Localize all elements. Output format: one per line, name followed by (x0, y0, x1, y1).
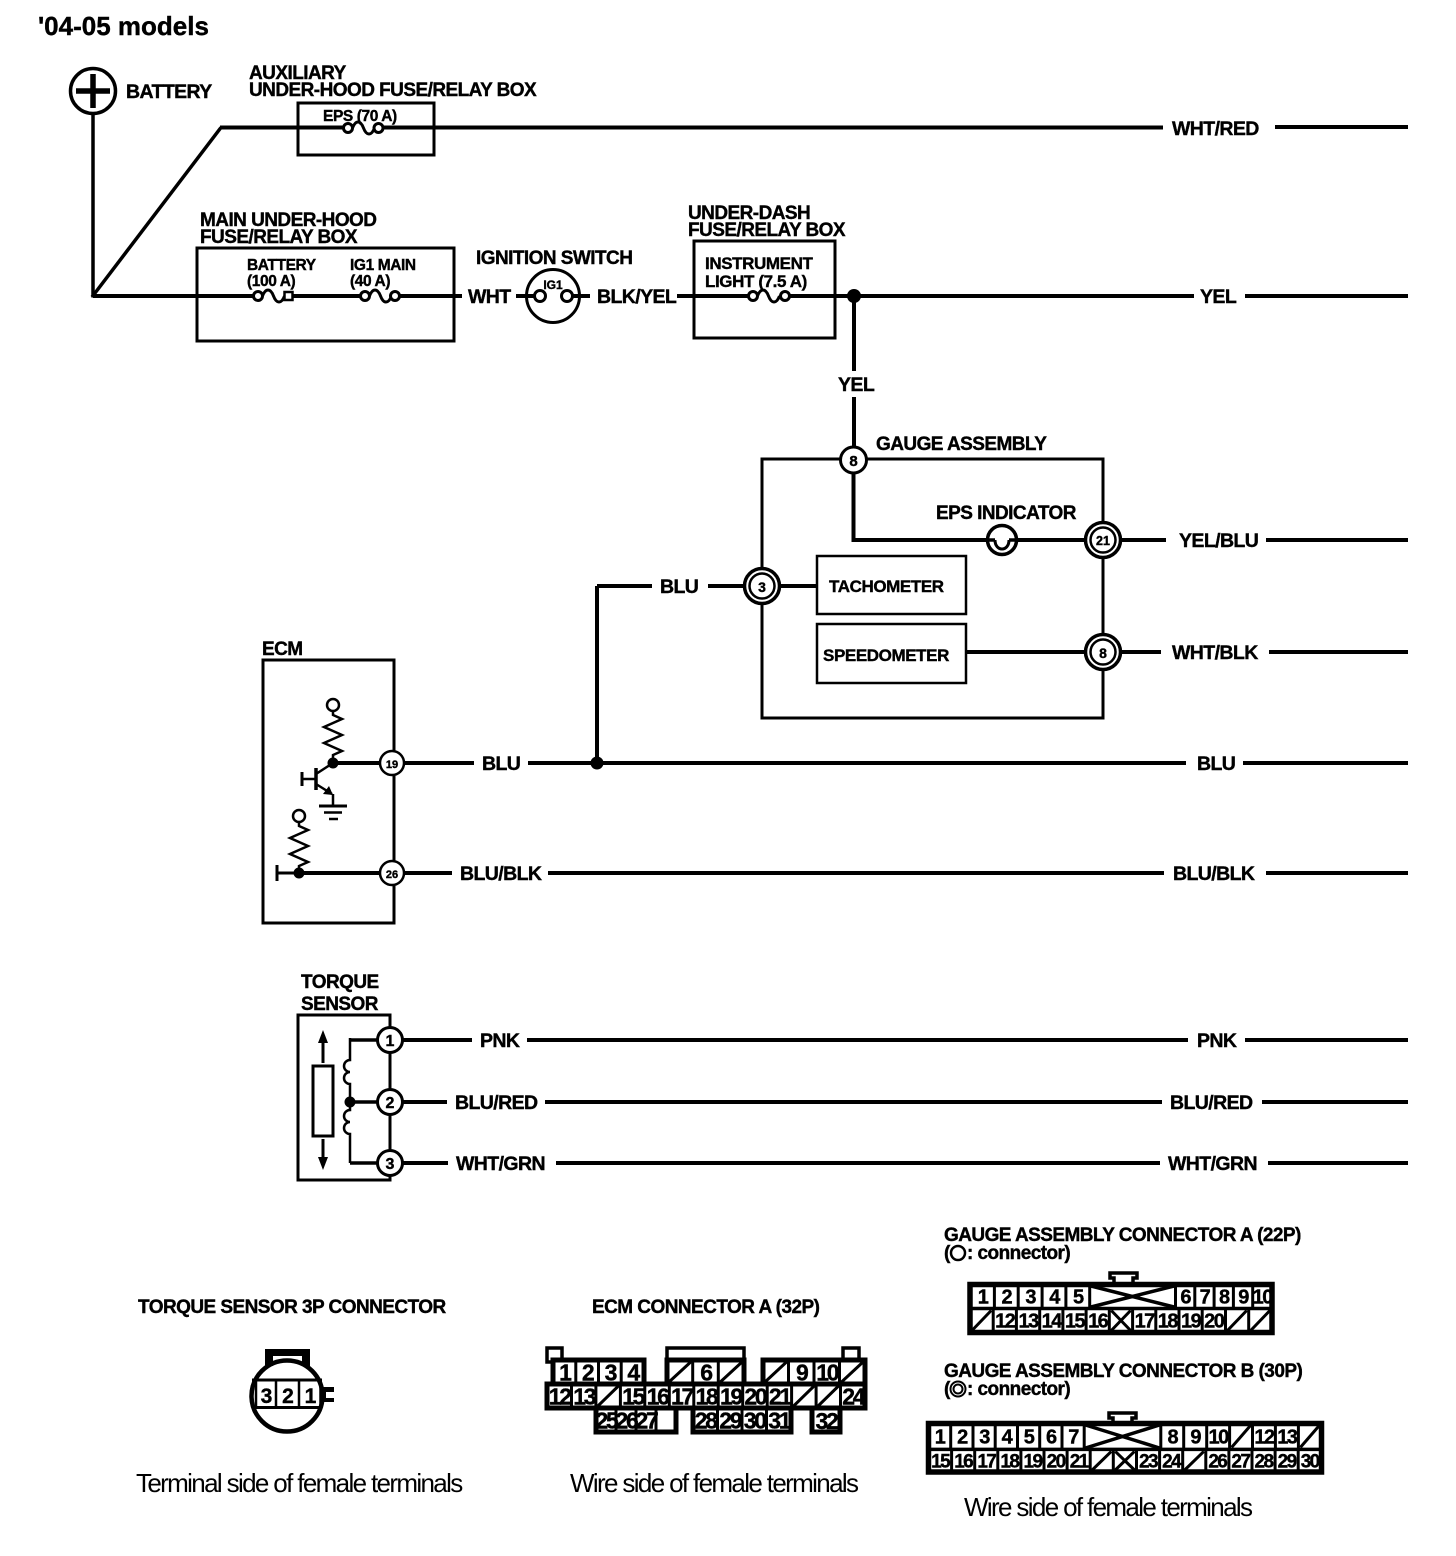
fuse INSTRUMENT LIGHT (7.5 A) (705, 254, 813, 302)
transistor Q1 (302, 763, 333, 806)
svg-text:15: 15 (622, 1383, 645, 1409)
gauge conn A crossed box (1088, 1285, 1091, 1309)
svg-text:21: 21 (769, 1383, 792, 1409)
svg-text:YEL/BLU: YEL/BLU (1179, 530, 1258, 552)
pin 1 torque (378, 1028, 403, 1053)
svg-text:Wire side of female terminals: Wire side of female terminals (570, 1468, 859, 1498)
fuse IG1 MAIN (40 A) (350, 257, 416, 302)
svg-text:Terminal side of female termin: Terminal side of female terminals (136, 1468, 463, 1498)
wire BLU/BLK right (1266, 871, 1408, 875)
legend connector A (944, 1243, 1070, 1264)
svg-text:BLU: BLU (482, 753, 520, 775)
svg-text:2: 2 (1001, 1287, 1012, 1309)
wire pin1 to PNK (403, 1038, 472, 1042)
wire PNK right (1245, 1038, 1408, 1042)
svg-text:16: 16 (1088, 1311, 1109, 1333)
svg-text:17: 17 (671, 1383, 693, 1409)
wire pin8 down to EPS indicator (854, 473, 989, 540)
main fuse box (197, 248, 454, 341)
pin 21 (1086, 523, 1121, 558)
svg-text:1: 1 (305, 1385, 317, 1408)
svg-text:YEL: YEL (1200, 286, 1237, 308)
svg-text:10: 10 (1208, 1427, 1229, 1449)
svg-text:26: 26 (386, 869, 398, 881)
wire WHT/BLK right (1269, 650, 1408, 654)
svg-text:20: 20 (744, 1383, 766, 1409)
svg-text:30: 30 (744, 1407, 766, 1433)
wire BLU right (1243, 761, 1408, 765)
wire YEL right (1245, 294, 1408, 298)
svg-text:18: 18 (1158, 1311, 1179, 1333)
gauge connector A body (970, 1285, 1272, 1333)
wire speedometer to pin 8 (966, 650, 1087, 654)
svg-text:29: 29 (1278, 1452, 1297, 1473)
svg-text:20: 20 (1047, 1452, 1066, 1473)
gauge conn B crossed box (1083, 1424, 1086, 1450)
resistor R1 pullup (324, 699, 342, 759)
svg-text:27: 27 (636, 1407, 658, 1433)
ground (319, 806, 347, 819)
svg-text:WHT/GRN: WHT/GRN (456, 1153, 545, 1175)
svg-text:26: 26 (1208, 1452, 1227, 1473)
svg-text:27: 27 (1231, 1452, 1250, 1473)
top row group 1 (553, 1360, 644, 1384)
svg-text:'04-05 models: '04-05 models (38, 11, 209, 41)
top center cap (667, 1348, 744, 1362)
svg-text:13: 13 (1018, 1311, 1039, 1333)
svg-text:17: 17 (977, 1452, 996, 1473)
wire BLU long (528, 761, 1186, 765)
svg-text:1: 1 (935, 1427, 946, 1449)
svg-text:15: 15 (1065, 1311, 1086, 1333)
svg-text:WHT: WHT (468, 286, 511, 308)
junction BLU (591, 757, 604, 770)
svg-text:9: 9 (796, 1359, 808, 1385)
svg-text:3: 3 (386, 1156, 395, 1173)
pin 3 (745, 569, 780, 604)
wire PNK long (527, 1038, 1188, 1042)
wire pin1 to coil (350, 1038, 378, 1042)
svg-text:9: 9 (1190, 1427, 1201, 1449)
ECM conn A bottom row cells 28-31 (716, 1408, 719, 1432)
svg-text:16: 16 (954, 1452, 973, 1473)
pin 3 torque (378, 1151, 403, 1176)
svg-text:FUSE/RELAY BOX: FUSE/RELAY BOX (200, 227, 358, 248)
svg-text:ECM CONNECTOR A (32P): ECM CONNECTOR A (32P) (592, 1297, 820, 1318)
ECM conn A middle row cells 12-24 (570, 1384, 573, 1408)
svg-text:8: 8 (849, 453, 857, 470)
svg-text:3: 3 (1025, 1287, 1036, 1309)
pin 19 (380, 751, 404, 775)
svg-text:BLU/RED: BLU/RED (1170, 1092, 1253, 1114)
svg-text:17: 17 (1135, 1311, 1156, 1333)
svg-text:9: 9 (1238, 1287, 1249, 1309)
node coil center (345, 1097, 356, 1108)
tachometer box (817, 556, 966, 614)
gauge conn A mid line (970, 1307, 1272, 1311)
svg-text:1: 1 (978, 1287, 989, 1309)
svg-text:(40 A): (40 A) (350, 273, 390, 290)
gauge connector B body (929, 1424, 1322, 1473)
svg-text:18: 18 (696, 1383, 719, 1409)
svg-text:16: 16 (647, 1383, 669, 1409)
wire YEL/BLU right (1266, 538, 1408, 542)
top row group 3 (763, 1360, 865, 1384)
svg-text:19: 19 (386, 759, 398, 771)
svg-text:WHT/RED: WHT/RED (1172, 118, 1259, 140)
fuse BATTERY (100 A) (247, 257, 317, 302)
wire WHT/GRN right (1268, 1161, 1408, 1165)
svg-text:BLU: BLU (1197, 753, 1235, 775)
svg-text:12: 12 (995, 1311, 1016, 1333)
svg-text:28: 28 (1255, 1452, 1274, 1473)
wire WHT to ignition switch (516, 294, 534, 298)
svg-text:32: 32 (816, 1408, 838, 1434)
top-left ear (547, 1348, 562, 1362)
svg-text:30: 30 (1301, 1452, 1320, 1473)
svg-text:19: 19 (720, 1383, 742, 1409)
speedometer box (817, 624, 966, 683)
svg-text:BATTERY: BATTERY (126, 81, 212, 103)
svg-text:INSTRUMENT: INSTRUMENT (705, 254, 813, 273)
svg-text:29: 29 (719, 1407, 741, 1433)
svg-text:BLK/YEL: BLK/YEL (597, 286, 677, 308)
svg-text:IG1: IG1 (543, 278, 563, 292)
svg-text:3: 3 (261, 1385, 272, 1408)
wire BLU/BLK long (548, 871, 1164, 875)
svg-text:12: 12 (1254, 1427, 1275, 1449)
svg-text:PNK: PNK (1197, 1030, 1237, 1052)
pin 8 speedometer (1086, 635, 1121, 670)
bottom row cell 32 (812, 1408, 840, 1432)
svg-text:ECM: ECM (262, 639, 303, 660)
node collector junction (328, 758, 339, 769)
gauge connector B latch (1109, 1413, 1136, 1423)
wire pin3 to tachometer (780, 584, 818, 588)
pin 26 (380, 861, 404, 885)
svg-text:5: 5 (1024, 1427, 1035, 1449)
svg-text:8: 8 (1099, 645, 1107, 661)
legend connector B (944, 1379, 1070, 1400)
svg-text:14: 14 (1042, 1311, 1064, 1333)
svg-text:YEL: YEL (838, 374, 875, 396)
svg-text:TACHOMETER: TACHOMETER (829, 577, 944, 596)
wire BLK/YEL to under-dash box (677, 294, 749, 298)
svg-text:19: 19 (1024, 1452, 1043, 1473)
svg-text:24: 24 (842, 1383, 865, 1409)
svg-text:3: 3 (979, 1427, 990, 1449)
svg-text:WHT/GRN: WHT/GRN (1168, 1153, 1257, 1175)
gauge conn B top cells 1-7 (949, 1424, 952, 1450)
gauge conn A top cells 1-5 (993, 1285, 996, 1309)
wire BLU feed to pin 3 (597, 584, 652, 588)
svg-text:TORQUE: TORQUE (301, 972, 379, 993)
svg-text:2: 2 (957, 1427, 968, 1449)
wire YEL vertical lower (852, 397, 856, 449)
svg-text:12: 12 (549, 1383, 571, 1409)
wire switch to BLK/YEL (573, 294, 590, 298)
wire bulb to pin 21 (1016, 538, 1087, 542)
arrow down (318, 1139, 328, 1170)
svg-text:: connector): : connector) (967, 1243, 1070, 1264)
svg-text:24: 24 (1162, 1452, 1182, 1473)
ECM connector A body (547, 1348, 865, 1432)
svg-text:19: 19 (1181, 1311, 1202, 1333)
coil upper (344, 1038, 350, 1102)
svg-text:28: 28 (695, 1407, 718, 1433)
svg-text:BATTERY: BATTERY (247, 257, 317, 274)
torque sensor 3P connector body (252, 1349, 335, 1432)
svg-text:18: 18 (1000, 1452, 1019, 1473)
svg-text:3: 3 (605, 1359, 617, 1385)
EPS indicator bulb (988, 526, 1017, 555)
ECM conn A top row cells /,6,/ (691, 1360, 694, 1384)
svg-text:GAUGE ASSEMBLY: GAUGE ASSEMBLY (876, 434, 1047, 455)
svg-text:10: 10 (816, 1359, 838, 1385)
wire BLU/RED long (545, 1100, 1162, 1104)
svg-text:2: 2 (582, 1359, 594, 1385)
gauge connector A latch (1110, 1273, 1137, 1284)
wire BLU/RED right (1262, 1100, 1408, 1104)
wire pin21 to YEL/BLU (1121, 538, 1166, 542)
svg-text:BLU/BLK: BLU/BLK (460, 863, 542, 885)
ECM conn A bottom row cells 25-27 (615, 1408, 618, 1432)
svg-text:IGNITION SWITCH: IGNITION SWITCH (476, 248, 632, 269)
svg-text:UNDER-HOOD FUSE/RELAY BOX: UNDER-HOOD FUSE/RELAY BOX (249, 80, 537, 101)
svg-text:6: 6 (1180, 1287, 1191, 1309)
svg-text:20: 20 (1204, 1311, 1225, 1333)
svg-text:BLU/BLK: BLU/BLK (1173, 863, 1255, 885)
resistor R2 pullup (290, 810, 308, 869)
svg-text:8: 8 (1167, 1427, 1178, 1449)
wire YEL vertical down (852, 296, 856, 371)
svg-text:2: 2 (386, 1095, 395, 1112)
wire pin26 to BLU/BLK (404, 871, 452, 875)
wire fuse2 to WHT (400, 294, 462, 298)
svg-text:Wire side of female terminals: Wire side of female terminals (964, 1492, 1253, 1522)
fuse EPS (70 A) (323, 108, 397, 134)
svg-text:FUSE/RELAY BOX: FUSE/RELAY BOX (688, 220, 846, 241)
gauge conn B top cells 8-13 (1182, 1424, 1185, 1450)
wire node to pin2 (350, 1100, 378, 1104)
svg-text:31: 31 (768, 1407, 791, 1433)
torque sensor box (298, 1015, 390, 1180)
wire battery to fuse (93, 294, 253, 298)
svg-text:10: 10 (1253, 1287, 1274, 1309)
wire pin2 to BLU/RED (403, 1100, 447, 1104)
wire battery diagonal to EPS fuse (92, 128, 221, 298)
gauge conn A top cells 6-10 (1193, 1285, 1196, 1309)
gauge conn B bottom cells (950, 1449, 953, 1472)
pin 2 torque (378, 1090, 403, 1115)
svg-text:2: 2 (282, 1385, 293, 1408)
svg-text:EPS INDICATOR: EPS INDICATOR (936, 503, 1077, 524)
ECM conn A top row cells 1-4 (574, 1360, 577, 1384)
node R2 junction (294, 868, 305, 879)
ignition switch (476, 248, 632, 323)
wire R2 node to pin 26 (299, 871, 381, 875)
wire battery vertical (91, 114, 95, 298)
stub left of R2 node (277, 865, 299, 881)
svg-text:LIGHT (7.5 A): LIGHT (7.5 A) (705, 272, 807, 291)
svg-text:(100 A): (100 A) (247, 273, 296, 290)
svg-text:6: 6 (1046, 1427, 1057, 1449)
ECM box (263, 660, 394, 923)
svg-text:SENSOR: SENSOR (301, 994, 379, 1015)
svg-text:WHT/BLK: WHT/BLK (1172, 642, 1258, 664)
slider rect (313, 1066, 333, 1136)
svg-text:8: 8 (1219, 1287, 1230, 1309)
svg-text:21: 21 (1070, 1452, 1090, 1473)
junction (847, 289, 861, 303)
svg-text:PNK: PNK (480, 1030, 520, 1052)
wire coil to pin3 (350, 1161, 378, 1165)
svg-text:21: 21 (1096, 534, 1110, 548)
svg-text:7: 7 (1068, 1427, 1079, 1449)
battery (71, 69, 213, 114)
svg-text:5: 5 (1073, 1287, 1084, 1309)
gauge conn B mid line (929, 1448, 1322, 1452)
wire pin3 to WHT/GRN (403, 1161, 448, 1165)
wire pin19 to BLU (404, 761, 474, 765)
svg-text:BLU/RED: BLU/RED (455, 1092, 538, 1114)
svg-text:1: 1 (386, 1033, 395, 1050)
wire EPS to WHT/RED (383, 126, 1163, 130)
gauge conn A bottom cells (992, 1309, 995, 1333)
svg-text:13: 13 (573, 1383, 595, 1409)
wire BLU vertical (595, 586, 599, 763)
pin 8 gauge top (841, 447, 867, 473)
svg-text:TORQUE SENSOR 3P CONNECTOR: TORQUE SENSOR 3P CONNECTOR (138, 1297, 447, 1318)
bottom row group 1 (596, 1408, 676, 1432)
gauge assembly box (762, 459, 1103, 718)
svg-text:: connector): : connector) (967, 1379, 1070, 1400)
auxiliary fuse box (298, 103, 434, 155)
svg-text:23: 23 (1139, 1452, 1158, 1473)
wire fuse1 to fuse2 (293, 294, 361, 298)
bottom row group 2 (693, 1408, 791, 1432)
wire to EPS fuse (220, 126, 344, 130)
wire WHT/GRN long (556, 1161, 1160, 1165)
wire junction to pin 19 (333, 761, 381, 765)
svg-text:15: 15 (931, 1452, 951, 1473)
svg-text:7: 7 (1200, 1287, 1211, 1309)
wire BLU to pin3 (708, 584, 745, 588)
under-dash fuse box (694, 241, 835, 338)
svg-text:3: 3 (758, 579, 766, 595)
wire WHT/RED right (1275, 125, 1408, 129)
middle row outline (547, 1384, 865, 1408)
ECM conn A top row cells /,9,10,/ (787, 1360, 790, 1384)
svg-text:13: 13 (1277, 1427, 1298, 1449)
top-right ear (843, 1348, 859, 1362)
coil lower (344, 1102, 350, 1163)
wire instrument fuse to YEL (790, 294, 1194, 298)
svg-text:SPEEDOMETER: SPEEDOMETER (823, 646, 949, 665)
svg-text:IG1 MAIN: IG1 MAIN (350, 257, 416, 274)
arrow up (318, 1030, 328, 1063)
top row group 2 (667, 1360, 744, 1384)
svg-text:BLU: BLU (660, 576, 698, 598)
svg-text:6: 6 (700, 1359, 712, 1385)
wire pin8 to WHT/BLK (1121, 650, 1161, 654)
